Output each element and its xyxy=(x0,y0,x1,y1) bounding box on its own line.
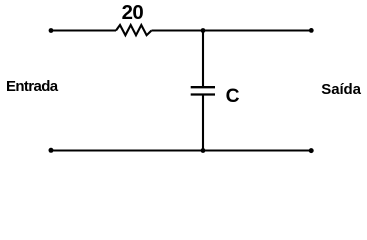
resistor R (20) zigzag xyxy=(116,25,152,35)
svg-text:20: 20 xyxy=(122,2,144,24)
svg-text:Saída: Saída xyxy=(321,81,361,98)
wire top-left segment xyxy=(51,29,116,31)
node input bottom (dot) xyxy=(49,148,54,153)
wire capacitor bottom stub xyxy=(202,95,204,151)
svg-text:C: C xyxy=(226,86,240,107)
node junction top (dot) xyxy=(201,28,206,33)
wire bottom xyxy=(51,149,311,151)
svg-text:Entrada: Entrada xyxy=(6,78,59,95)
node output bottom (dot) xyxy=(309,148,314,153)
node output top (dot) xyxy=(309,28,314,33)
capacitor C top plate xyxy=(191,86,215,88)
node junction bottom (dot) xyxy=(201,148,206,153)
wire capacitor top stub xyxy=(202,31,204,87)
wire top-right segment xyxy=(152,29,312,31)
capacitor C bottom plate xyxy=(191,93,215,95)
node input top (dot) xyxy=(49,28,54,33)
